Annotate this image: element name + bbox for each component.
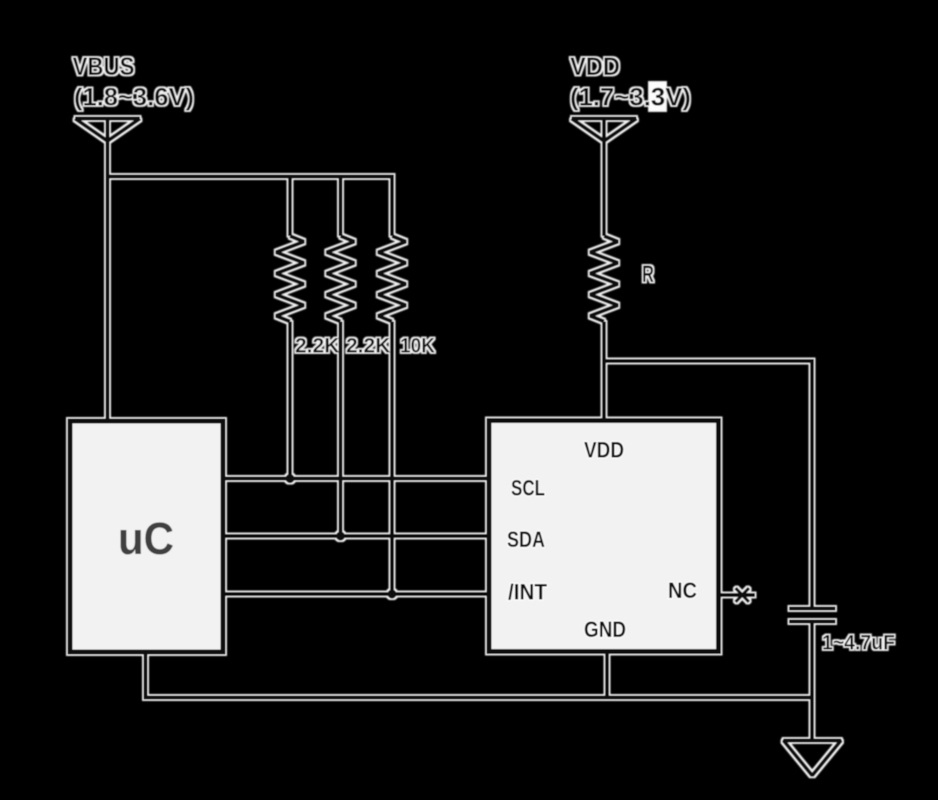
- svg-text:2.2K: 2.2K: [295, 335, 339, 358]
- svg-text:10K: 10K: [400, 335, 435, 358]
- svg-text:SCL: SCL: [511, 476, 545, 501]
- svg-text:SDA: SDA: [507, 527, 545, 552]
- svg-text:uC: uC: [118, 513, 174, 564]
- svg-text:VDD: VDD: [584, 438, 624, 463]
- svg-text:VDD: VDD: [570, 53, 620, 81]
- svg-text:(1.8~3.6V): (1.8~3.6V): [74, 84, 194, 112]
- svg-text:(1.7~3.3V): (1.7~3.3V): [570, 84, 691, 112]
- svg-text:/INT: /INT: [508, 580, 548, 605]
- svg-text:R: R: [642, 261, 654, 288]
- svg-text:GND: GND: [584, 617, 626, 642]
- svg-text:2.2K: 2.2K: [346, 335, 390, 358]
- svg-text:1~4.7uF: 1~4.7uF: [822, 632, 895, 655]
- svg-text:NC: NC: [668, 578, 697, 603]
- svg-text:VBUS: VBUS: [73, 53, 135, 81]
